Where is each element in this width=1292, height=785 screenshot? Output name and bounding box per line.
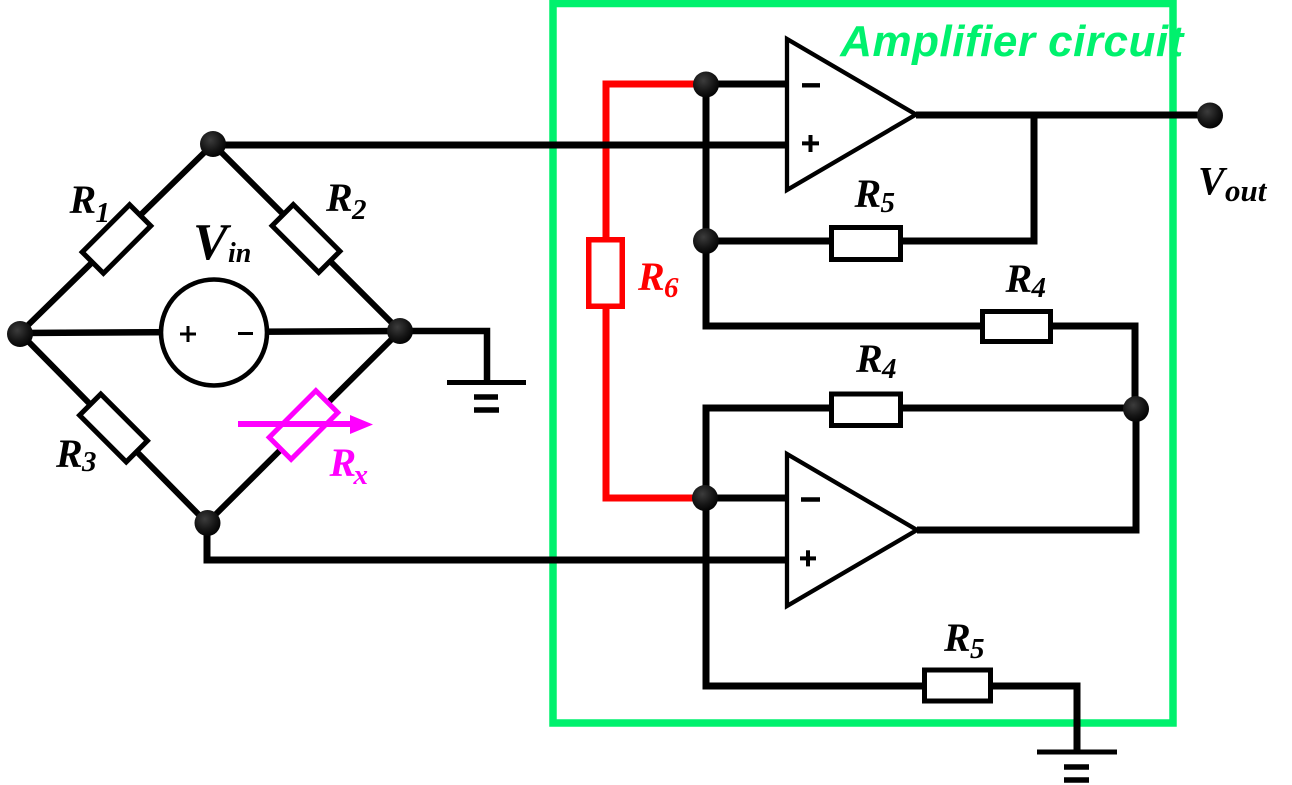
resistor R5 bottom body xyxy=(925,670,991,701)
svg-text:4: 4 xyxy=(881,353,897,385)
amplifier circuit green box xyxy=(553,4,1173,724)
svg-text:R: R xyxy=(637,254,665,299)
svg-text:R: R xyxy=(1005,256,1033,301)
wire lower R4 route / U2 vertical / bottom R5 route to ground xyxy=(706,408,1136,752)
svg-text:V: V xyxy=(193,214,232,271)
svg-text:Amplifier circuit: Amplifier circuit xyxy=(839,17,1185,66)
resistor R2 body xyxy=(272,205,340,273)
op-amp U1 xyxy=(787,39,916,190)
op-amp U2 xyxy=(787,454,917,606)
wire bridge top node to op-amp U1 + input xyxy=(213,142,787,149)
wire U2 output route to node B xyxy=(917,405,1136,530)
variable resistor Rx arrow xyxy=(238,421,353,427)
resistor R4 lower body xyxy=(832,394,901,426)
node bottom (bridge) xyxy=(195,510,221,536)
wire bridge diagonal top-right (R2 branch) xyxy=(213,144,400,331)
resistor R5 top body xyxy=(832,228,901,260)
svg-text:in: in xyxy=(228,238,251,269)
wire op-amp U1 inverting input xyxy=(706,81,789,88)
wire op-amp U2 inverting input xyxy=(706,495,789,502)
wire right bridge node to ground xyxy=(400,331,487,382)
svg-text:V: V xyxy=(1198,159,1228,204)
svg-text:R: R xyxy=(943,615,971,660)
voltage source Vin xyxy=(161,280,267,386)
wire bridge diagonal bottom-right (Rx branch) xyxy=(207,331,400,523)
svg-text:3: 3 xyxy=(81,446,97,478)
ground (amplifier bottom) xyxy=(1037,752,1117,780)
svg-text:R: R xyxy=(55,431,83,476)
svg-text:out: out xyxy=(1225,173,1268,208)
resistor R3 body xyxy=(80,394,148,462)
resistor R4 top body xyxy=(983,312,1051,342)
svg-text:R: R xyxy=(329,440,357,485)
node left (bridge) xyxy=(7,321,33,347)
svg-text:1: 1 xyxy=(96,197,111,229)
svg-text:x: x xyxy=(353,459,369,491)
wire bridge bottom node to op-amp U2 + input xyxy=(207,519,787,560)
wire R5 feedback route (U1) xyxy=(706,115,1034,241)
wire U1 output to Vout xyxy=(916,112,1210,119)
svg-text:4: 4 xyxy=(1031,272,1047,304)
wire bridge diagonal left-bottom (R3 branch) xyxy=(20,333,207,523)
svg-text:5: 5 xyxy=(970,633,985,665)
node B junction dot xyxy=(1123,396,1149,422)
node top (bridge) xyxy=(200,131,226,157)
svg-text:R: R xyxy=(854,171,882,216)
node U2 inverting junction dot xyxy=(692,485,718,511)
resistor R6 body xyxy=(589,240,623,307)
svg-text:R: R xyxy=(855,336,883,381)
wire bridge middle horizontal (through Vin) xyxy=(20,331,400,333)
svg-text:R: R xyxy=(325,175,353,220)
resistor R1 body xyxy=(82,205,151,274)
svg-text:2: 2 xyxy=(351,194,367,226)
variable resistor Rx body (magenta) xyxy=(269,391,338,460)
svg-text:R: R xyxy=(69,177,97,222)
node Vout terminal dot xyxy=(1197,103,1223,129)
wire bridge diagonal left-top (R1 branch) xyxy=(20,144,213,333)
svg-text:5: 5 xyxy=(881,187,896,219)
resistor R6 red wire path xyxy=(606,84,706,498)
node right (bridge) xyxy=(387,318,413,344)
node A junction dot xyxy=(693,72,719,98)
svg-text:6: 6 xyxy=(664,272,679,304)
wire node A vertical + upper R4 route xyxy=(706,84,1135,409)
ground (bridge) xyxy=(447,383,526,411)
node R5 junction dot xyxy=(693,228,719,254)
